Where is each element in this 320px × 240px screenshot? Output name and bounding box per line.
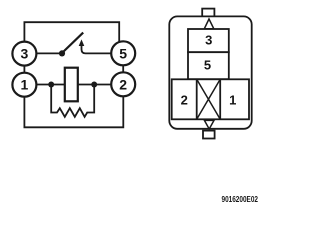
svg-text:3: 3	[205, 33, 212, 48]
svg-text:1: 1	[229, 92, 236, 107]
svg-text:3: 3	[21, 46, 29, 62]
svg-text:5: 5	[119, 45, 127, 61]
svg-text:2: 2	[181, 92, 188, 107]
svg-text:1: 1	[21, 77, 29, 93]
svg-text:2: 2	[119, 76, 127, 92]
svg-text:9016200E02: 9016200E02	[222, 195, 259, 204]
svg-text:5: 5	[204, 58, 211, 73]
